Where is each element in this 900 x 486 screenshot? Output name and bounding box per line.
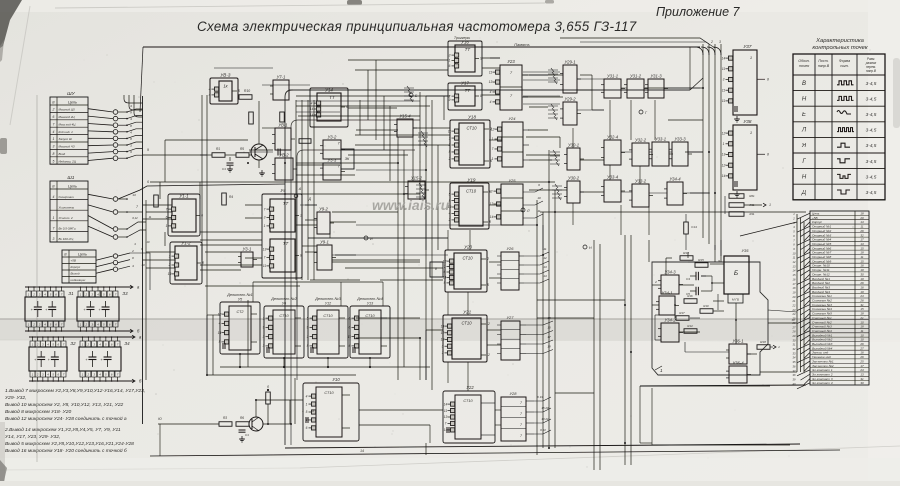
svg-text:2: 2	[131, 249, 134, 253]
svg-text:У33-2: У33-2	[635, 179, 647, 184]
svg-text:СТ10: СТ10	[466, 189, 477, 194]
svg-text:5: 5	[487, 283, 489, 287]
svg-text:14: 14	[722, 56, 726, 60]
svg-text:R11: R11	[750, 212, 755, 216]
svg-text:18: 18	[547, 345, 551, 349]
svg-text:Триггеры: Триггеры	[454, 36, 471, 40]
svg-text:22: 22	[792, 304, 796, 308]
svg-text:7: 7	[520, 423, 522, 427]
svg-text:точек: точек	[799, 64, 810, 68]
svg-text:У29- У32,: У29- У32,	[5, 395, 26, 401]
svg-text:12: 12	[486, 353, 490, 357]
svg-text:R6: R6	[240, 416, 244, 420]
svg-text:4: 4	[53, 195, 55, 199]
svg-text:У14: У14	[325, 88, 333, 93]
svg-text:6: 6	[346, 105, 348, 109]
svg-text:12: 12	[722, 131, 726, 135]
svg-text:9: 9	[480, 57, 482, 61]
svg-text:3-4,5: 3-4,5	[866, 143, 877, 148]
svg-text:12: 12	[543, 256, 547, 260]
svg-text:У33-3: У33-3	[674, 137, 686, 142]
svg-text:8: 8	[435, 267, 437, 271]
svg-text:11: 11	[543, 247, 546, 251]
svg-text:R17: R17	[679, 311, 685, 315]
svg-text:напр.В: напр.В	[818, 64, 830, 68]
svg-text:У35: У35	[741, 248, 749, 253]
svg-text:Машкод ЧЗ: Машкод ЧЗ	[59, 145, 75, 149]
svg-text:Цепь: Цепь	[68, 185, 77, 189]
svg-text:6: 6	[306, 426, 308, 430]
svg-text:1: 1	[166, 224, 168, 228]
svg-text:3: 3	[53, 145, 55, 149]
svg-text:3: 3	[53, 237, 55, 241]
svg-text:СТ10: СТ10	[323, 314, 333, 318]
svg-text:14: 14	[490, 215, 494, 219]
svg-text:R18: R18	[760, 340, 766, 344]
svg-text:6,12: 6,12	[132, 216, 138, 220]
svg-text:Выход: Выход	[71, 272, 80, 276]
svg-text:5: 5	[238, 89, 240, 93]
svg-text:3-4,5: 3-4,5	[866, 112, 877, 117]
svg-text:3: 3	[312, 409, 314, 413]
svg-text:7: 7	[520, 401, 522, 405]
svg-text:СТ10: СТ10	[466, 126, 477, 131]
svg-text:+5В: +5В	[71, 259, 76, 263]
svg-text:13: 13	[489, 80, 493, 84]
svg-text:1: 1	[53, 216, 55, 220]
svg-text:сигн.: сигн.	[840, 64, 849, 68]
svg-text:4: 4	[53, 130, 55, 134]
svg-text:R5: R5	[240, 147, 244, 151]
svg-text:R4: R4	[229, 195, 233, 199]
svg-text:У38: У38	[743, 119, 751, 124]
svg-text:У33-4: У33-4	[607, 175, 619, 180]
svg-text:И: И	[370, 237, 373, 241]
svg-text:Ш1: Ш1	[67, 175, 74, 181]
svg-text:Память: Память	[514, 42, 529, 47]
svg-text:R01: R01	[749, 194, 755, 198]
svg-text:У9-1: У9-1	[320, 240, 329, 245]
svg-text:17: 17	[547, 335, 551, 339]
svg-text:У29-2: У29-2	[564, 97, 576, 102]
svg-text:Схема электрическая принцип: Схема электрическая принципиальная часто…	[197, 19, 637, 34]
svg-text:Б: Б	[734, 270, 738, 277]
svg-text:3-4,5: 3-4,5	[866, 128, 877, 133]
svg-text:2: 2	[87, 373, 90, 377]
svg-text:7: 7	[520, 434, 522, 438]
svg-text:12: 12	[486, 322, 490, 326]
svg-text:3: 3	[442, 344, 444, 348]
svg-text:Вход: Вход	[59, 152, 66, 156]
svg-text:У31-3: У31-3	[650, 74, 662, 79]
svg-text:В: В	[802, 81, 806, 87]
svg-text:Цепь: Цепь	[68, 101, 77, 105]
svg-text:23: 23	[792, 308, 796, 312]
svg-text:2: 2	[654, 280, 657, 284]
svg-text:R14: R14	[687, 324, 693, 328]
svg-text:2.Вывод 14 микросхем У1,У2,У8,: 2.Вывод 14 микросхем У1,У2,У8,У4,У5, У7,…	[4, 427, 121, 433]
svg-text:1: 1	[264, 224, 266, 228]
svg-text:1: 1	[750, 55, 752, 60]
svg-text:СТ10: СТ10	[462, 256, 473, 261]
svg-text:11: 11	[722, 67, 726, 71]
svg-text:13: 13	[441, 338, 445, 342]
svg-text:28: 28	[792, 330, 796, 334]
svg-text:14: 14	[360, 449, 364, 453]
svg-text:11: 11	[263, 264, 267, 268]
svg-text:R10: R10	[244, 89, 250, 93]
svg-text:Усилит. 2: Усилит. 2	[59, 216, 74, 220]
svg-text:У36-4: У36-4	[732, 361, 744, 366]
svg-text:1.Вывод 7 микросхем У2,У3,У8,У: 1.Вывод 7 микросхем У2,У3,У8,У9,У10,У12-…	[5, 388, 145, 394]
svg-text:13: 13	[444, 415, 448, 419]
svg-text:1: 1	[750, 130, 752, 135]
svg-text:1: 1	[723, 142, 725, 146]
svg-text:У7-1: У7-1	[277, 75, 286, 80]
svg-text:У26: У26	[506, 246, 514, 251]
svg-text:10: 10	[141, 263, 145, 267]
svg-text:12: 12	[722, 163, 726, 167]
svg-text:7: 7	[264, 207, 266, 211]
svg-text:9: 9	[307, 326, 309, 330]
svg-text:12: 12	[491, 127, 495, 131]
svg-text:7: 7	[166, 207, 168, 211]
svg-text:2: 2	[710, 40, 713, 44]
svg-text:7: 7	[492, 147, 494, 151]
svg-text:7: 7	[445, 422, 447, 426]
svg-text:1: 1	[660, 368, 663, 373]
svg-text:Характеристика: Характеристика	[815, 38, 865, 44]
svg-text:20: 20	[792, 295, 796, 299]
svg-text:У34-1: У34-1	[661, 291, 672, 296]
svg-text:27: 27	[792, 325, 796, 329]
svg-text:30: 30	[860, 381, 864, 385]
svg-text:З1: З1	[68, 291, 74, 296]
svg-text:СТ10: СТ10	[461, 321, 472, 326]
svg-text:5: 5	[53, 159, 55, 163]
svg-text:У6: У6	[282, 302, 286, 306]
svg-text:5: 5	[449, 192, 451, 196]
svg-text:9: 9	[147, 148, 149, 152]
svg-text:R16: R16	[687, 294, 693, 298]
svg-text:7: 7	[53, 122, 55, 126]
svg-text:R1: R1	[216, 147, 220, 151]
svg-text:А: А	[298, 187, 302, 191]
svg-text:4: 4	[311, 101, 313, 105]
svg-text:1: 1	[306, 402, 308, 406]
svg-text:4: 4	[209, 93, 211, 97]
svg-text:8: 8	[767, 77, 769, 81]
svg-text:11: 11	[722, 99, 726, 103]
svg-text:14: 14	[310, 113, 314, 117]
svg-text:2: 2	[168, 263, 171, 267]
svg-text:У30-1: У30-1	[568, 143, 579, 148]
svg-text:УВ-2: УВ-2	[279, 153, 289, 158]
svg-text:У32-2: У32-2	[635, 138, 647, 143]
svg-text:3-4,5: 3-4,5	[866, 81, 877, 86]
svg-text:14: 14	[310, 107, 314, 111]
svg-text:Л: Л	[801, 128, 807, 134]
svg-text:У28: У28	[509, 391, 517, 396]
svg-text:Вывод 16 микросхем У18- У20 с: Вывод 16 микросхем У18- У20 соединить с …	[5, 447, 127, 454]
svg-text:8: 8	[767, 152, 769, 156]
svg-text:У34-4: У34-4	[669, 177, 681, 182]
svg-text:14: 14	[441, 324, 445, 328]
svg-text:R10: R10	[703, 304, 709, 308]
svg-text:Корпус: Корпус	[71, 265, 81, 269]
svg-text:5: 5	[307, 344, 309, 348]
svg-text:6: 6	[349, 344, 351, 348]
svg-text:3: 3	[719, 40, 721, 44]
svg-text:Делитель №4: Делитель №4	[356, 297, 382, 301]
svg-text:С14: С14	[691, 225, 697, 229]
svg-text:У36-1: У36-1	[732, 339, 743, 344]
svg-text:У9-2: У9-2	[319, 207, 328, 212]
svg-text:4: 4	[219, 322, 221, 326]
svg-text:Машкод 2Ц: Машкод 2Ц	[59, 115, 76, 119]
svg-text:2: 2	[85, 323, 88, 327]
svg-text:С1: С1	[245, 433, 249, 437]
svg-text:У3-3: У3-3	[328, 158, 337, 163]
svg-text:Вывод 5 микросхем У2,У8,У10,У1: Вывод 5 микросхем У2,У8,У10,У12,У13,У16,…	[5, 441, 134, 447]
svg-text:15 20: 15 20	[541, 406, 549, 410]
svg-text:13: 13	[132, 193, 136, 197]
svg-text:Приложение 7: Приложение 7	[656, 5, 740, 19]
svg-text:5: 5	[449, 150, 451, 154]
svg-text:У22: У22	[466, 385, 474, 390]
svg-text:Вх 0,5-3МГц: Вх 0,5-3МГц	[59, 227, 76, 231]
svg-text:С1: С1	[222, 167, 226, 171]
svg-text:Вх 100 кГц: Вх 100 кГц	[59, 237, 74, 241]
svg-text:Л: Л	[526, 209, 530, 213]
svg-text:У1-1: У1-1	[179, 194, 189, 199]
svg-text:7: 7	[136, 205, 138, 209]
svg-text:6: 6	[201, 214, 203, 218]
svg-text:У18: У18	[468, 115, 476, 120]
svg-text:Н: Н	[802, 96, 807, 102]
svg-text:Машкод Ц5: Машкод Ц5	[59, 108, 75, 112]
svg-text:У37: У37	[743, 44, 751, 49]
svg-text:СТ10: СТ10	[279, 314, 289, 318]
svg-text:4: 4	[209, 87, 211, 91]
svg-text:24: 24	[792, 312, 796, 316]
svg-text:Синхрониз.: Синхрониз.	[59, 195, 75, 199]
svg-text:6: 6	[147, 180, 149, 184]
svg-text:3-4,5: 3-4,5	[866, 96, 877, 101]
svg-text:1: 1	[263, 316, 265, 320]
svg-text:13: 13	[543, 265, 547, 269]
svg-text:12: 12	[218, 312, 222, 316]
svg-text:У1-2: У1-2	[181, 241, 191, 246]
svg-text:1: 1	[492, 137, 494, 141]
svg-text:29: 29	[792, 334, 796, 338]
svg-text:Эл.контакт 4: Эл.контакт 4	[812, 381, 833, 385]
svg-text:9: 9	[444, 281, 446, 285]
svg-text:У3-1: У3-1	[243, 247, 252, 252]
svg-text:2: 2	[32, 293, 35, 297]
svg-text:6 19: 6 19	[537, 395, 543, 399]
svg-text:11: 11	[489, 70, 493, 74]
svg-text:6: 6	[449, 64, 451, 68]
svg-text:Обозн.: Обозн.	[798, 59, 809, 63]
svg-text:9 22: 9 22	[540, 428, 546, 432]
svg-text:13: 13	[722, 153, 726, 157]
svg-text:СТ10: СТ10	[365, 314, 375, 318]
svg-text:У13: У13	[367, 302, 373, 306]
svg-text:9: 9	[263, 326, 265, 330]
svg-text:Делитель №3: Делитель №3	[314, 297, 341, 301]
svg-text:11: 11	[444, 409, 448, 413]
svg-text:М ГБ: М ГБ	[732, 298, 739, 302]
svg-text:5: 5	[219, 340, 221, 344]
svg-text:Н: Н	[589, 246, 592, 250]
svg-text:1: 1	[169, 254, 171, 258]
svg-text:21: 21	[792, 299, 796, 303]
svg-text:8: 8	[489, 220, 491, 224]
svg-text:10 21: 10 21	[541, 417, 549, 421]
svg-text:6: 6	[349, 316, 351, 320]
svg-text:7: 7	[264, 256, 266, 260]
svg-text:Вывод 12 микросхем У24- У28 с: Вывод 12 микросхем У24- У28 соединить с …	[5, 415, 127, 422]
svg-text:Усилитель: Усилитель	[59, 205, 75, 209]
svg-text:У31-1: У31-1	[607, 74, 618, 79]
svg-text:У32-4: У32-4	[607, 135, 619, 140]
svg-text:3: 3	[449, 53, 451, 57]
svg-text:Вывод 8 микросхем У18- У20: Вывод 8 микросхем У18- У20	[5, 409, 71, 415]
svg-text:19: 19	[791, 318, 795, 322]
svg-text:11: 11	[722, 88, 726, 92]
svg-text:Вывод 10 микросхем У2, У8, У1: Вывод 10 микросхем У2, У8, У10,У12, У13,…	[5, 402, 124, 408]
svg-text:СТ10: СТ10	[324, 391, 334, 395]
svg-text:Код инд. 1: Код инд. 1	[59, 130, 74, 134]
svg-text:8: 8	[480, 94, 482, 98]
svg-text:У16: У16	[461, 40, 469, 45]
svg-text:2: 2	[486, 257, 489, 261]
svg-text:1: 1	[307, 335, 309, 339]
svg-text:индикации: индикации	[71, 278, 86, 282]
svg-text:R15: R15	[698, 258, 704, 262]
svg-text:3: 3	[723, 78, 725, 82]
svg-text:14: 14	[444, 402, 448, 406]
svg-text:Д: Д	[801, 190, 807, 196]
svg-text:2: 2	[448, 157, 451, 161]
svg-text:У24: У24	[508, 116, 516, 121]
svg-text:12: 12	[441, 331, 445, 335]
svg-text:У23: У23	[507, 59, 515, 64]
svg-text:3-4,5: 3-4,5	[866, 159, 877, 164]
svg-text:СТ10: СТ10	[463, 399, 473, 403]
svg-text:б: б	[267, 385, 269, 389]
svg-text:5: 5	[306, 410, 308, 414]
svg-text:7: 7	[444, 265, 446, 269]
svg-text:R3: R3	[223, 416, 227, 420]
svg-text:11: 11	[149, 215, 152, 219]
svg-text:У12: У12	[325, 302, 331, 306]
svg-text:1: 1	[449, 136, 451, 140]
svg-text:4: 4	[490, 100, 492, 104]
svg-text:13: 13	[263, 247, 267, 251]
svg-text:У29-1: У29-1	[564, 60, 575, 65]
svg-text:У5: У5	[238, 298, 242, 302]
svg-text:8: 8	[53, 152, 55, 156]
svg-text:13: 13	[168, 272, 172, 276]
svg-text:У19: У19	[467, 178, 475, 183]
svg-text:8: 8	[202, 261, 204, 265]
svg-text:14: 14	[218, 331, 222, 335]
svg-text:У27: У27	[506, 315, 514, 320]
svg-text:7: 7	[520, 412, 522, 416]
svg-text:З2: З2	[70, 341, 76, 346]
svg-text:У14, У17, У23, У29- У32,: У14, У17, У23, У29- У32,	[5, 434, 60, 440]
svg-text:www.iais.ru: www.iais.ru	[372, 197, 450, 213]
svg-text:У4: У4	[280, 188, 286, 193]
svg-text:2: 2	[32, 323, 35, 327]
svg-text:Маш.код 4Ц: Маш.код 4Ц	[59, 122, 77, 126]
svg-text:Индикац. 2Ц: Индикац. 2Ц	[59, 159, 77, 163]
svg-text:1: 1	[53, 137, 55, 141]
svg-text:1: 1	[442, 351, 444, 355]
svg-text:Делитель №2: Делитель №2	[270, 297, 297, 301]
svg-text:3: 3	[491, 189, 493, 193]
svg-text:6: 6	[444, 270, 446, 274]
svg-text:У17: У17	[461, 81, 469, 86]
svg-text:1: 1	[492, 157, 494, 161]
svg-text:11: 11	[448, 129, 452, 133]
svg-text:У34-2: У34-2	[664, 318, 676, 323]
svg-text:Цепь: Цепь	[78, 253, 87, 257]
svg-text:З4: З4	[124, 341, 130, 346]
svg-text:У25: У25	[508, 178, 516, 183]
svg-text:4: 4	[490, 90, 492, 94]
svg-text:1: 1	[769, 203, 771, 207]
svg-text:У31-2: У31-2	[630, 74, 642, 79]
svg-text:Н: Н	[802, 174, 807, 180]
svg-text:4: 4	[306, 394, 308, 398]
svg-text:Форма: Форма	[839, 59, 850, 63]
svg-text:З3: З3	[122, 291, 128, 296]
svg-text:УВ-3: УВ-3	[220, 73, 231, 78]
svg-text:У30-2: У30-2	[568, 176, 580, 181]
svg-text:С4: С4	[686, 277, 690, 281]
svg-text:11: 11	[537, 209, 540, 213]
svg-text:14: 14	[722, 174, 726, 178]
svg-text:3: 3	[263, 344, 265, 348]
svg-text:контрольных точек: контрольных точек	[812, 45, 867, 51]
svg-text:У21: У21	[463, 310, 471, 315]
svg-text:2: 2	[85, 293, 88, 297]
svg-text:6: 6	[53, 115, 55, 119]
svg-text:7: 7	[53, 227, 55, 231]
svg-text:Делитель №1: Делитель №1	[226, 293, 252, 297]
svg-text:3: 3	[264, 216, 266, 220]
svg-text:1: 1	[449, 59, 451, 63]
svg-text:У33-1: У33-1	[655, 137, 666, 142]
svg-text:13: 13	[490, 202, 494, 206]
svg-text:5: 5	[307, 316, 309, 320]
svg-text:СТ2: СТ2	[236, 310, 244, 314]
svg-text:Ю: Ю	[158, 417, 162, 421]
svg-text:9: 9	[449, 98, 451, 102]
svg-text:2: 2	[52, 108, 55, 112]
svg-text:2: 2	[448, 218, 451, 222]
svg-text:У20: У20	[464, 245, 472, 250]
svg-text:14: 14	[543, 274, 547, 278]
svg-text:У3-2: У3-2	[328, 135, 337, 140]
svg-text:3-4,5: 3-4,5	[866, 190, 877, 195]
svg-text:11: 11	[348, 335, 352, 339]
svg-text:16: 16	[547, 326, 551, 330]
svg-text:Пост.: Пост.	[818, 59, 828, 63]
